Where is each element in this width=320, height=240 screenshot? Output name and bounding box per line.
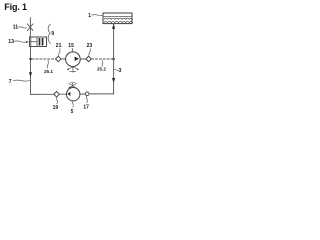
consumer block 1 (hatched reservoir) — [103, 13, 133, 24]
leader 23 — [89, 49, 91, 56]
svg-text:Fig. 1: Fig. 1 — [4, 2, 27, 12]
leader 17 — [85, 96, 88, 103]
wire 15 into pump — [71, 48, 73, 52]
svg-text:21: 21 — [56, 43, 62, 49]
svg-text:13: 13 — [8, 39, 14, 45]
valve 13 (2-position box) — [30, 37, 47, 47]
leader 11 — [18, 27, 27, 28]
node 25.2 junction dot — [112, 58, 114, 60]
wire — [89, 93, 114, 95]
leader 5 — [72, 101, 75, 107]
wire: dashed suction line (node 25.1 to check valve 21) — [32, 58, 55, 60]
svg-text:9: 9 — [51, 31, 54, 37]
wire: left vertical line 7 — [30, 47, 32, 95]
check valve 21 (diamond) — [56, 56, 62, 62]
wire — [80, 93, 86, 95]
wire — [80, 58, 86, 60]
leader 13 (arrow to valve) — [14, 41, 28, 42]
svg-text:5: 5 — [71, 109, 74, 115]
leader 21 — [59, 49, 60, 56]
pump U1 (circle with triangle) — [66, 52, 81, 67]
svg-text:25.1: 25.1 — [44, 69, 53, 74]
svg-text:19: 19 — [53, 105, 59, 111]
check valve 19 (diamond) — [54, 91, 60, 97]
leader 19 — [56, 98, 59, 104]
svg-text:3: 3 — [119, 68, 122, 74]
hose break mark 9 — [48, 24, 50, 43]
svg-text:1: 1 — [88, 13, 91, 19]
vent symbol 11 (X on line above valve) — [27, 18, 33, 37]
port 17 (small circle) — [85, 92, 89, 96]
wire — [61, 58, 66, 60]
svg-text:23: 23 — [87, 43, 93, 49]
flow arrow down on line 3 — [112, 78, 115, 83]
leader 1 — [92, 14, 103, 17]
svg-text:17: 17 — [83, 104, 89, 110]
drive shaft mark below pump — [67, 67, 78, 73]
leader 25.2 — [101, 60, 104, 66]
motor 5 (circle with triangle) — [67, 88, 80, 101]
wire: dashed pressure line (valve 23 to node 25.2) — [92, 58, 114, 60]
leader 25.1 — [47, 60, 48, 68]
leader 7 — [14, 80, 30, 81]
flow arrow up into block 1 — [112, 24, 115, 29]
drive shaft mark above motor — [69, 83, 77, 89]
svg-text:11: 11 — [13, 24, 19, 30]
flow arrow on line 7 — [29, 72, 32, 77]
node 25.1 junction dot — [29, 58, 31, 60]
svg-text:7: 7 — [9, 79, 12, 85]
wire: bottom return line — [31, 93, 54, 95]
svg-text:15: 15 — [68, 43, 74, 49]
leader 3 — [114, 69, 119, 72]
check valve 23 (diamond) — [86, 56, 91, 61]
wire — [59, 93, 66, 95]
wire: right vertical line 3 — [113, 24, 115, 94]
svg-text:25.2: 25.2 — [97, 67, 106, 72]
